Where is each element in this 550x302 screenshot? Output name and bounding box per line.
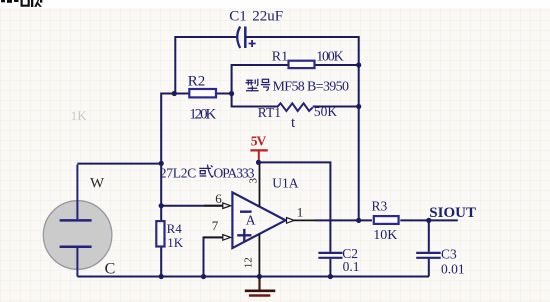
op-amp U1A triangle [232,192,285,248]
wire C3 stubs [428,220,430,276]
op-amp plus [237,229,251,242]
wire left bus lower [160,163,162,220]
wire right bus [358,36,360,220]
resistor R2 [189,89,216,97]
svg-text:C: C [105,261,116,278]
svg-text:10K: 10K [373,228,397,243]
svg-text:C1: C1 [229,8,247,24]
svg-text:12: 12 [242,257,254,268]
wire R1 row [232,64,359,66]
capacitor C3 [416,253,441,258]
svg-text:22uF: 22uF [252,8,283,24]
svg-text:RT1: RT1 [258,105,281,120]
svg-text:27L2C: 27L2C [160,165,197,180]
wire top feedback [175,36,358,38]
wire bottom rail [77,276,429,278]
svg-text:C3: C3 [441,247,457,262]
pin 1 stub [293,219,315,221]
svg-text:3: 3 [248,178,260,184]
svg-text:R3: R3 [372,199,388,214]
resistor R3 [374,216,399,224]
capacitor C1 [237,27,255,49]
pin 6 stub [204,205,223,207]
wire 5V branch to C2 [259,162,331,252]
svg-text:6: 6 [215,191,222,206]
op-amp minus [240,210,252,212]
svg-text:1: 1 [297,204,304,219]
thermistor RT1 zigzag [277,103,313,111]
wire C2 bottom stub [329,259,331,277]
header cropped black chinese text [1,0,42,7]
svg-text:120K: 120K [189,106,216,122]
svg-text:7: 7 [212,218,219,233]
pin 3 stub [259,162,261,206]
capacitor C2 [318,253,342,258]
svg-text:50K: 50K [314,104,338,119]
svg-text:R1: R1 [272,50,288,65]
svg-text:A: A [246,213,256,228]
wire R4 bottom [160,248,162,277]
wire pin7 riser [204,237,223,276]
svg-text:W: W [90,175,105,191]
wire R2 right stub [217,93,232,95]
wire pin6 [161,205,223,207]
wire mid vertical [231,64,233,108]
sensor humidity cell [43,165,112,277]
svg-text:U1A: U1A [272,176,298,191]
svg-text:1K: 1K [167,235,184,250]
svg-text:MF58 B=3950: MF58 B=3950 [273,80,350,95]
svg-text:0.1: 0.1 [343,259,360,274]
wire sensor top [77,163,161,165]
wire left bus upper [174,36,176,94]
wire output row [315,219,458,221]
svg-text:SIOUT: SIOUT [429,205,476,221]
svg-text:100K: 100K [316,50,344,65]
svg-text:1K: 1K [71,108,88,123]
svg-text:0.01: 0.01 [441,261,465,276]
pin 7 stub [204,236,223,238]
wire RT1 row [232,106,359,108]
resistor R1 [289,61,315,68]
svg-text:5V: 5V [251,134,267,149]
power 5V [250,150,267,162]
wire R2 jog [161,94,174,164]
resistor R4 [156,221,164,246]
pin 12 stub [258,234,260,277]
svg-text:R2: R2 [188,74,206,90]
label 型号MF58 B=3950 [246,79,271,91]
wire R2 left stub [174,93,188,95]
svg-text:R4: R4 [167,221,183,236]
ground [245,277,275,296]
